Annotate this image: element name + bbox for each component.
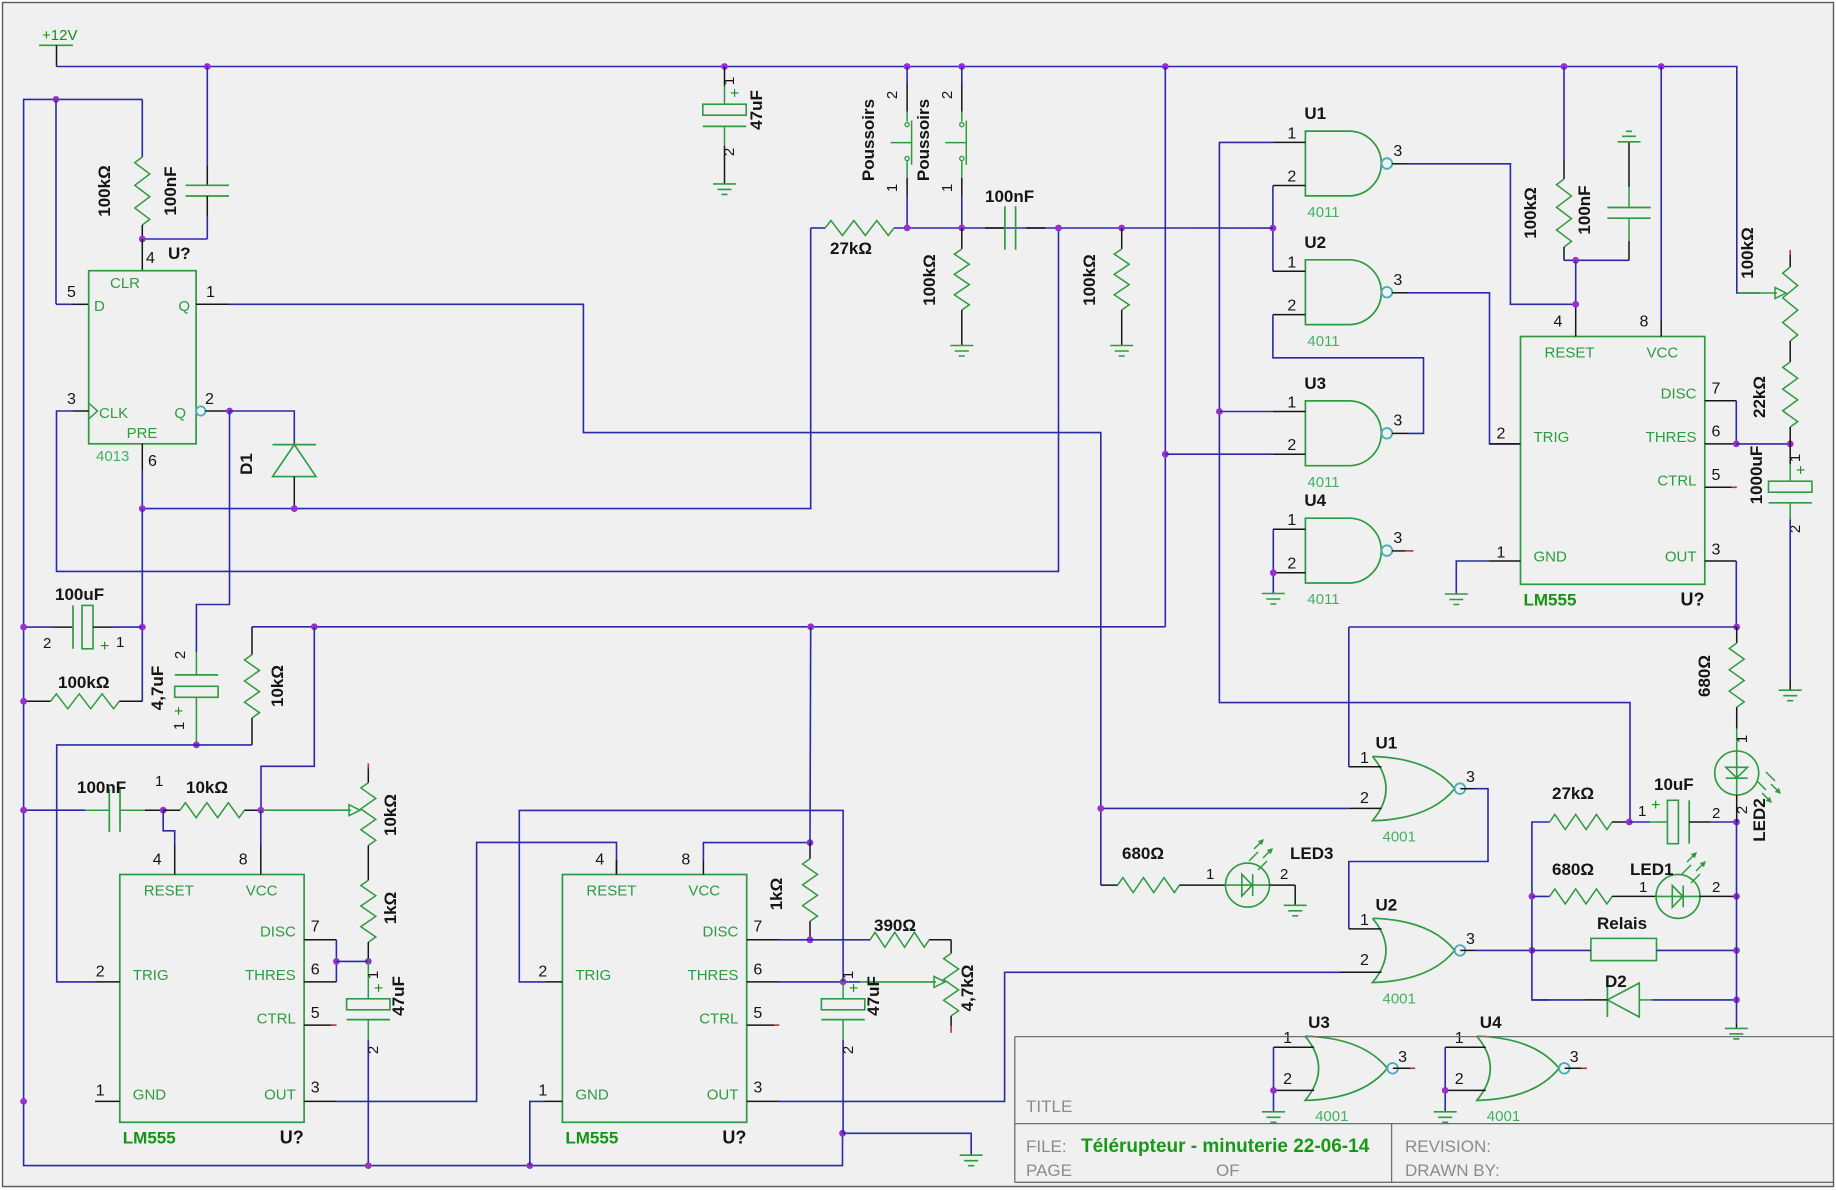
svg-text:8: 8 <box>1640 314 1649 331</box>
svg-text:+: + <box>171 706 188 715</box>
wire TRIG net of 555 #2 <box>57 745 197 982</box>
junction THRES node 555 #3 <box>840 979 847 986</box>
svg-text:100nF: 100nF <box>77 778 126 797</box>
svg-text:OUT: OUT <box>264 1087 296 1104</box>
svg-text:2: 2 <box>1360 952 1369 969</box>
junction VCC feed 555 #3 <box>807 623 814 630</box>
svg-text:1: 1 <box>1206 866 1214 883</box>
pin 3 stub CLK <box>73 410 89 412</box>
wire TRIG-THRES tie 555 #3 <box>519 810 843 982</box>
pin labels of C7 <box>1787 454 1810 533</box>
pin numbers of U3 4001 <box>1283 1030 1407 1088</box>
wire THRES 555 #3 <box>779 981 860 983</box>
junction latch set node <box>1270 225 1277 232</box>
resistor R13 27k <box>1550 815 1613 830</box>
svg-text:DISC: DISC <box>703 924 739 941</box>
svg-text:3: 3 <box>1393 530 1402 547</box>
svg-text:680Ω: 680Ω <box>1695 655 1714 697</box>
svg-text:Q: Q <box>174 405 186 422</box>
svg-text:1: 1 <box>1787 454 1804 462</box>
wire GND 555 #3 <box>530 1101 545 1165</box>
pin labels of C10 <box>840 971 863 1054</box>
ground below C7 <box>1779 690 1802 701</box>
svg-text:U?: U? <box>1681 590 1705 610</box>
wire relay row <box>1532 949 1591 951</box>
potentiometer P3 4.7k <box>950 940 952 954</box>
junction U2 4001 out / relay net <box>1529 947 1536 954</box>
svg-text:LM555: LM555 <box>1524 591 1577 610</box>
junction U3 4011 pin2 feed <box>1162 451 1169 458</box>
svg-text:5: 5 <box>311 1005 320 1022</box>
svg-text:+: + <box>1793 465 1810 474</box>
svg-text:2: 2 <box>840 1046 857 1054</box>
svg-text:TRIG: TRIG <box>575 967 611 984</box>
svg-text:8: 8 <box>681 852 690 869</box>
diode D2 <box>1607 983 1639 1017</box>
inverted ground above C6 <box>1618 131 1641 142</box>
wire U3 input tie <box>1273 1047 1275 1112</box>
svg-text:THRES: THRES <box>688 967 739 984</box>
svg-text:+: + <box>371 983 388 992</box>
ground 555 #1 <box>1445 594 1468 605</box>
svg-text:1: 1 <box>538 1083 547 1100</box>
wire node A (top-left loop y=99) <box>24 99 143 1101</box>
junction RESET node 555 #2 <box>160 807 167 814</box>
svg-text:FILE:: FILE: <box>1026 1137 1067 1156</box>
svg-text:U2: U2 <box>1376 895 1398 914</box>
junction RESET node 555 #1 <box>1572 257 1579 264</box>
svg-text:+: + <box>727 88 744 97</box>
svg-text:22kΩ: 22kΩ <box>1750 376 1769 418</box>
diode D1 <box>273 445 317 477</box>
pin labels of C9 <box>365 971 388 1054</box>
svg-text:DISC: DISC <box>260 924 296 941</box>
wire OUT 555 #1 down <box>1735 561 1737 627</box>
svg-text:3: 3 <box>311 1080 320 1097</box>
wire relay drive vertical <box>1532 822 1550 1000</box>
no-connect stub CTRL 555 #1 <box>1732 486 1737 488</box>
junction D1 anode <box>291 505 298 512</box>
resistor R2 100k (Qbar RC) <box>24 700 51 702</box>
wire reset RC node <box>1564 259 1629 261</box>
ground of relay rail <box>1725 1028 1748 1039</box>
NOR gate U4 (4001) <box>1477 1036 1559 1100</box>
svg-text:100uF: 100uF <box>55 585 104 604</box>
wire OUT node to U1 4001 pin1 <box>1348 627 1350 767</box>
svg-text:1: 1 <box>939 184 956 192</box>
svg-text:U4: U4 <box>1304 491 1326 510</box>
svg-text:100nF: 100nF <box>985 187 1034 206</box>
wire DISC to THRES 555 #1 <box>1735 401 1737 444</box>
svg-text:100nF: 100nF <box>161 166 180 215</box>
svg-text:10kΩ: 10kΩ <box>381 794 400 836</box>
svg-text:2: 2 <box>1497 426 1506 443</box>
svg-text:8: 8 <box>239 852 248 869</box>
wire VCC 555 #3 <box>703 843 810 860</box>
pin labels of SW2 <box>939 91 956 192</box>
ground below R5 <box>950 346 973 357</box>
resistor R10 1k <box>361 880 376 942</box>
svg-text:1: 1 <box>721 77 738 85</box>
svg-text:Relais: Relais <box>1597 914 1647 933</box>
svg-text:CLR: CLR <box>110 275 140 292</box>
svg-text:LED2: LED2 <box>1750 798 1769 841</box>
NAND gate U4 (4011) <box>1305 518 1381 583</box>
pin names of 555 #1 <box>1534 345 1697 566</box>
pin numbers of U4 4001 <box>1455 1030 1579 1088</box>
svg-text:2: 2 <box>43 635 51 652</box>
pin labels of LED1 <box>1639 879 1720 896</box>
svg-text:Poussoirs: Poussoirs <box>859 99 878 181</box>
junction VCC 555 #3 / R11 <box>807 839 814 846</box>
junction DISC tie 555 #2 <box>333 958 340 965</box>
wire RESET vertical 555 #1 <box>1575 260 1577 304</box>
pin stubs U3 4011 <box>1273 412 1408 455</box>
svg-text:OUT: OUT <box>1665 549 1697 566</box>
wire +12V dogleg to 555 #2 VCC <box>261 627 314 810</box>
pin stubs U4 4011 <box>1273 529 1405 573</box>
svg-text:D2: D2 <box>1605 972 1627 991</box>
svg-text:U1: U1 <box>1304 104 1326 123</box>
pin stubs 555 #3 <box>545 860 779 1101</box>
junction SW2 bottom <box>958 225 965 232</box>
pin stubs U3 4001 <box>1274 1047 1411 1090</box>
clock triangle of 4013 <box>89 403 98 419</box>
no-connect stub U4 output <box>1582 1067 1587 1069</box>
timer 555 #1 LM555 body <box>1521 337 1705 585</box>
svg-text:1: 1 <box>1360 912 1369 929</box>
svg-text:10uF: 10uF <box>1654 775 1694 794</box>
wire Qbar to 4.7uF C5 <box>196 411 229 652</box>
svg-text:4: 4 <box>1554 314 1563 331</box>
svg-text:+12V: +12V <box>42 27 77 44</box>
no-connect stub CTRL 555 #3 <box>774 1024 779 1026</box>
svg-text:27kΩ: 27kΩ <box>1552 784 1594 803</box>
capacitor C3 100nF coupling <box>985 227 1005 229</box>
svg-text:390Ω: 390Ω <box>874 916 916 935</box>
junction PRE node <box>139 505 146 512</box>
wire U1 4001 pin2 from LED3 net <box>1101 807 1349 809</box>
wire PRE net down to 100uF <box>141 509 143 702</box>
junction U3 4001 inputs <box>1270 1087 1277 1094</box>
svg-text:1: 1 <box>365 971 382 979</box>
junction DISC 555 #3 / R12 <box>807 936 814 943</box>
pin 6 stub PRE <box>141 444 143 470</box>
svg-text:27kΩ: 27kΩ <box>830 239 872 258</box>
junction left rail / C8 <box>20 807 27 814</box>
ground below LED3 <box>1284 905 1307 916</box>
wire CLK net <box>57 228 1059 571</box>
svg-text:2: 2 <box>1287 556 1296 573</box>
svg-text:680Ω: 680Ω <box>1552 860 1594 879</box>
junction CLR node <box>139 236 146 243</box>
pin numbers of 555 #3 <box>538 852 762 1100</box>
junction R13 / C11 <box>1626 819 1633 826</box>
junction CLK coupling <box>1055 225 1062 232</box>
wire LED1 to ground rail <box>1700 895 1737 897</box>
svg-text:3: 3 <box>753 1080 762 1097</box>
svg-text:REVISION:: REVISION: <box>1405 1137 1491 1156</box>
timer 555 #2 LM555 body <box>120 875 304 1123</box>
svg-text:CTRL: CTRL <box>1657 473 1696 490</box>
no-connect stub U4 output <box>1405 550 1414 552</box>
emission arrows LED1 <box>1682 852 1706 883</box>
pin stubs U2 4011 <box>1273 271 1408 314</box>
pin stubs U2 4001 <box>1340 929 1475 972</box>
ground below C2 <box>713 184 736 195</box>
svg-text:3: 3 <box>1393 412 1402 429</box>
pin numbers of U4 <box>1287 512 1402 573</box>
NAND gate U1 (4011) <box>1305 131 1381 196</box>
svg-text:OF: OF <box>1216 1161 1240 1180</box>
svg-text:4013: 4013 <box>96 448 129 465</box>
pin names of 4013 <box>94 275 190 442</box>
svg-text:1: 1 <box>116 634 124 651</box>
wire ground rail right <box>1736 822 1738 1023</box>
wire GND 555 #1 <box>1456 561 1489 594</box>
svg-text:1: 1 <box>1497 545 1506 562</box>
svg-text:RESET: RESET <box>586 883 636 900</box>
svg-text:2: 2 <box>939 91 956 99</box>
svg-text:1: 1 <box>1287 512 1296 529</box>
svg-text:2: 2 <box>538 964 547 981</box>
wire VCC 555 #2 from wiper node <box>260 810 262 845</box>
svg-text:1: 1 <box>155 773 163 790</box>
resistor R7 100k (555 #1 reset RC) <box>1563 67 1565 161</box>
resistor R11 1k <box>809 843 811 859</box>
svg-text:GND: GND <box>1534 549 1568 566</box>
svg-text:4: 4 <box>146 250 155 267</box>
svg-text:LM555: LM555 <box>565 1129 618 1148</box>
svg-text:PRE: PRE <box>127 425 158 442</box>
svg-text:+: + <box>100 638 109 655</box>
svg-text:2: 2 <box>1287 298 1296 315</box>
svg-text:2: 2 <box>172 651 189 659</box>
junction LED1 / ground rail <box>1733 893 1740 900</box>
emission arrows LED3 <box>1249 839 1273 870</box>
junction +12V / VCC pin 555 #1 <box>1658 63 1665 70</box>
wire U2 output to 555 #1 TRIG <box>1408 293 1521 444</box>
wire C7 to ground <box>1789 520 1791 680</box>
pin numbers of U2 4001 <box>1360 912 1475 969</box>
no-connect stub P3 bottom <box>950 1026 952 1033</box>
wire bus ground stub <box>843 1133 972 1155</box>
svg-text:1kΩ: 1kΩ <box>381 892 400 925</box>
capacitor C11 10uF electrolytic <box>1629 821 1650 823</box>
capacitor C5 4.7uF electrolytic <box>175 674 218 676</box>
svg-text:1: 1 <box>171 722 188 730</box>
pushbutton SW2 <box>945 67 966 228</box>
junction LED3 net / U1 4001 pin2 <box>1097 805 1104 812</box>
svg-text:1: 1 <box>1638 803 1646 820</box>
junction relay / ground rail <box>1733 947 1740 954</box>
LED1 <box>1656 874 1700 918</box>
svg-text:LED3: LED3 <box>1290 844 1333 863</box>
svg-text:DRAWN BY:: DRAWN BY: <box>1405 1161 1500 1180</box>
resistor R4 27k <box>825 221 894 236</box>
svg-text:1kΩ: 1kΩ <box>767 878 786 911</box>
svg-text:3: 3 <box>1466 769 1475 786</box>
svg-text:VCC: VCC <box>246 883 278 900</box>
pin numbers of 555 #1 <box>1497 314 1721 562</box>
no-connect stub P2 top <box>367 763 369 768</box>
wire PRE net (y=508) <box>141 470 143 509</box>
junction 100uF C4 right <box>139 624 146 631</box>
wire LED3 to ground <box>1270 884 1296 886</box>
wire VCC 555 #1 <box>1660 67 1662 321</box>
pin names of 555 #3 <box>575 883 738 1104</box>
wire U1.2/U2.1 tie <box>1272 186 1274 272</box>
svg-text:100kΩ: 100kΩ <box>1521 187 1540 238</box>
pin 2 stub Qbar <box>205 410 229 412</box>
svg-text:GND: GND <box>575 1087 609 1104</box>
svg-text:7: 7 <box>311 919 320 936</box>
NAND gate U2 (4011) <box>1305 260 1381 325</box>
svg-text:2: 2 <box>1712 805 1720 822</box>
svg-text:D1: D1 <box>237 453 256 475</box>
junction R2 left <box>20 698 27 705</box>
no-connect stub P1 top <box>1789 250 1791 255</box>
pin numbers of U1 4001 <box>1360 750 1475 807</box>
resistor R16 680 (LED3) <box>1101 884 1118 886</box>
wiper arrow P3 <box>860 981 936 983</box>
junction U4 4001 inputs <box>1442 1087 1449 1094</box>
svg-text:2: 2 <box>96 964 105 981</box>
svg-text:VCC: VCC <box>1647 345 1679 362</box>
svg-text:1: 1 <box>1734 735 1751 743</box>
svg-text:CTRL: CTRL <box>257 1011 296 1028</box>
capacitor C6 100nF (555 #1 reset) <box>1628 142 1630 187</box>
junction D-input feed <box>53 96 60 103</box>
pin names of 555 #2 <box>133 883 296 1104</box>
junction RESET / U1 4011 out <box>1572 301 1579 308</box>
wire Qbar to D1 <box>230 411 295 445</box>
junction R5 top <box>1118 225 1125 232</box>
svg-text:7: 7 <box>753 919 762 936</box>
svg-text:TRIG: TRIG <box>133 967 169 984</box>
svg-text:U1: U1 <box>1376 734 1398 753</box>
svg-text:5: 5 <box>67 284 76 301</box>
svg-text:680Ω: 680Ω <box>1122 844 1164 863</box>
junction SW1 bottom <box>904 225 911 232</box>
junction OUT 555 #1 node <box>1733 624 1740 631</box>
inversion bubble on 4013 pin 2 <box>196 406 205 415</box>
capacitor C9 47uF electrolytic <box>367 961 369 998</box>
pin stubs U4 4001 <box>1445 1047 1582 1090</box>
pin 1 stub Q of 4013 <box>196 303 229 305</box>
junction R3 top / +12V <box>311 623 318 630</box>
capacitor C7 1000uF electrolytic <box>1789 444 1791 464</box>
svg-text:3: 3 <box>1393 143 1402 160</box>
pin labels of C4 <box>43 634 124 655</box>
svg-text:Q: Q <box>178 298 190 315</box>
ground below R6 <box>1110 346 1133 357</box>
title block texts <box>1026 1097 1500 1180</box>
pin numbers of 555 #2 <box>96 852 320 1100</box>
resistor R9 10k <box>163 809 180 811</box>
svg-text:4: 4 <box>153 852 162 869</box>
emission arrows LED2 <box>1757 772 1781 803</box>
timer 555 #3 LM555 body <box>562 875 746 1123</box>
svg-text:100kΩ: 100kΩ <box>1080 254 1099 305</box>
svg-text:Télérupteur - minuterie 22-06-: Télérupteur - minuterie 22-06-14 <box>1081 1136 1370 1157</box>
svg-text:2: 2 <box>1360 790 1369 807</box>
pin labels of LED2 <box>1734 735 1751 814</box>
wire DISC 555 #3 <box>779 939 810 941</box>
svg-text:2: 2 <box>1287 437 1296 454</box>
ground below U3 4001 <box>1262 1112 1285 1123</box>
junction C9 / bus <box>365 1162 372 1169</box>
svg-text:OUT: OUT <box>707 1087 739 1104</box>
title block frame <box>1015 1037 1833 1183</box>
svg-text:PAGE: PAGE <box>1026 1161 1072 1180</box>
wire U4 input tie <box>1444 1047 1446 1112</box>
svg-text:2: 2 <box>1712 879 1720 896</box>
svg-text:10kΩ: 10kΩ <box>186 778 228 797</box>
svg-text:3: 3 <box>1466 931 1475 948</box>
resistor R1 100k (4013 CLR pullup) <box>141 99 143 157</box>
svg-text:1: 1 <box>840 971 857 979</box>
junction Qbar node <box>226 408 233 415</box>
ground of bottom bus <box>960 1155 983 1166</box>
svg-text:100kΩ: 100kΩ <box>95 165 114 216</box>
wire OUT 555 #3 to U2 4001 pin2 <box>779 972 1340 1101</box>
wire D1 anode to PRE net <box>293 477 295 509</box>
svg-text:100kΩ: 100kΩ <box>920 254 939 305</box>
svg-text:2: 2 <box>1455 1071 1464 1088</box>
pushbutton SW1 <box>891 67 912 228</box>
NOR gate U1 (4001) <box>1373 757 1455 821</box>
capacitor C1 100nF (4013 CLR) <box>206 67 208 167</box>
relay RL1 coil <box>1591 938 1657 960</box>
svg-text:4001: 4001 <box>1383 829 1416 846</box>
svg-text:1: 1 <box>96 1083 105 1100</box>
junction +12V / 100kR (555 #1 reset RC) <box>1561 63 1568 70</box>
svg-text:THRES: THRES <box>245 967 296 984</box>
svg-text:+: + <box>846 983 863 992</box>
svg-text:100nF: 100nF <box>1575 185 1594 234</box>
svg-text:4,7kΩ: 4,7kΩ <box>958 965 977 1012</box>
svg-text:1: 1 <box>1639 879 1647 896</box>
NAND gate U3 (4011) <box>1305 401 1381 466</box>
flip-flop U5 4013 body <box>89 271 196 444</box>
svg-text:TITLE: TITLE <box>1026 1097 1072 1116</box>
pin stubs 555 #1 <box>1489 304 1736 561</box>
svg-text:7: 7 <box>1712 381 1721 398</box>
junction 22k / 1000uF <box>1787 441 1794 448</box>
capacitor C4 100uF electrolytic <box>24 626 53 628</box>
junction THRES node 555 #1 <box>1733 441 1740 448</box>
junction +12V / pushbutton SW1 <box>904 63 911 70</box>
svg-text:1: 1 <box>1360 750 1369 767</box>
wire VCC feed from +12V <box>809 627 812 843</box>
potentiometer P2 10k <box>367 768 369 783</box>
svg-text:4001: 4001 <box>1383 990 1416 1007</box>
svg-text:D: D <box>94 298 105 315</box>
svg-text:6: 6 <box>148 453 157 470</box>
pin labels of C2 <box>721 77 744 156</box>
LED3 <box>1226 863 1270 907</box>
wire pushbutton net y=228 <box>811 227 826 229</box>
capacitor C2 47uF electrolytic <box>724 67 726 87</box>
wire CLR net <box>142 238 207 240</box>
svg-text:U?: U? <box>168 244 191 263</box>
resistor R15 680 (LED2) <box>1736 627 1738 643</box>
pin labels of LED3 <box>1206 866 1288 883</box>
svg-text:U3: U3 <box>1308 1013 1330 1032</box>
junction 680R R14 left <box>1529 893 1536 900</box>
ground below U4 4001 <box>1434 1112 1457 1123</box>
